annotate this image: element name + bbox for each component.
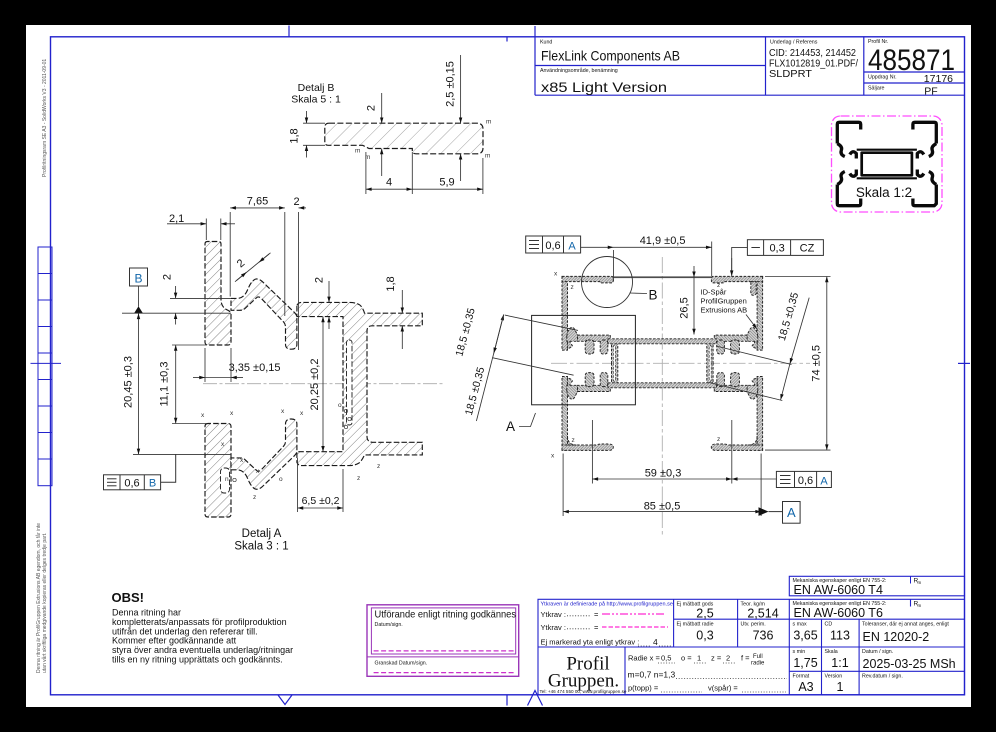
svg-text:Underlag / Referens: Underlag / Referens [770,40,818,46]
svg-text:85 ±0,5: 85 ±0,5 [644,501,681,513]
svg-text:A3: A3 [798,680,813,694]
box wall slit half [613,345,615,363]
svg-text:m: m [485,153,490,160]
svg-text:Ytkraven är definierade på htt: Ytkraven är definierade på http://www.pr… [541,601,673,608]
detail B circle [582,257,633,308]
svg-text:Version: Version [825,674,843,680]
box top wall [608,339,717,344]
svg-text:Utv. perim.: Utv. perim. [741,622,766,628]
svg-text:2,1: 2,1 [169,213,184,225]
thin top wall line (center span) [613,276,711,278]
flatness datum 0,6 A top [526,236,581,253]
svg-text:FlexLink Components AB: FlexLink Components AB [541,48,680,64]
guide finger 1 [585,340,594,354]
svg-text:2,5 ±0,15: 2,5 ±0,15 [445,61,457,107]
svg-text:o =: o = [681,654,692,663]
Main cross-section view [453,235,831,537]
finger plateau [578,335,611,341]
magenta dash-dot border [832,116,943,212]
svg-text:f =: f = [741,654,750,663]
svg-text:EN AW-6060 T4: EN AW-6060 T4 [794,583,883,597]
svg-text:v(spår) =: v(spår) = [708,684,738,693]
detail A rectangle [532,315,636,404]
svg-text:113: 113 [830,629,850,643]
detail B strip body (hatched) [325,123,483,154]
dim 1,8 arm [401,290,403,349]
Skala 1:2 preview box [832,116,943,212]
svg-text:Radie x =: Radie x = [628,654,661,663]
svg-text:p(topp) =: p(topp) = [628,684,659,693]
fold marks [278,26,970,706]
svg-text:m: m [918,580,922,585]
svg-text:1: 1 [697,654,701,663]
svg-text:A: A [568,241,576,253]
top-right corner arm with pad end [711,276,762,283]
svg-text:s min: s min [793,649,806,655]
svg-text:Skala: Skala [825,649,838,655]
upper-left wall bar [205,242,231,346]
svg-text:m: m [918,603,922,608]
svg-text:z: z [572,437,575,444]
svg-text:n: n [225,476,229,483]
material box EN AW-6060 T4 [789,576,964,597]
svg-text:1,8: 1,8 [289,128,301,143]
bottom foot right [711,444,762,450]
flatness datum box 0,6 B [104,454,176,489]
svg-text:B: B [149,478,156,490]
svg-text:2: 2 [162,274,174,280]
svg-text:4: 4 [653,637,658,647]
svg-text:1,75: 1,75 [793,656,817,670]
svg-text:m=0,7 n=1,3: m=0,7 n=1,3 [628,670,676,680]
right mid T-fingers [917,152,924,177]
datum A flag [759,507,769,516]
svg-text:ProfilGruppen: ProfilGruppen [701,297,747,306]
svg-text:0,3: 0,3 [696,629,713,643]
svg-text:2: 2 [726,654,730,663]
svg-text:z: z [717,436,720,443]
svg-text:A: A [506,419,515,434]
left wall jaw lower [837,172,845,185]
svg-text:Ytkrav :: Ytkrav : [541,623,566,632]
outer side wall (upper-left) [562,277,568,351]
svg-text:2: 2 [314,277,326,283]
dim 2 box wall [328,281,330,329]
lower-left wall bar [205,424,231,518]
svg-text:59 ±0,3: 59 ±0,3 [645,468,682,480]
profile silhouette icon [837,122,936,205]
box bottom wall [608,383,717,388]
svg-text:=: = [594,623,599,632]
svg-text:20,45 ±0,3: 20,45 ±0,3 [123,356,135,408]
svg-text:0,6: 0,6 [798,475,813,487]
svg-text:Utförande enligt ritning godkä: Utförande enligt ritning godkännes [375,609,517,621]
Detail A view [104,196,446,553]
box side wall upper half [612,340,618,363]
svg-text:m: m [365,154,370,161]
dim 41,9 [581,242,712,282]
top-left corner bracket [837,122,860,143]
lower band with valley and screw-boss tube [231,419,297,489]
upper band with crown and screw-boss tube [231,279,297,349]
jaw bump on wall [567,334,572,349]
bottom foot left corner fillet [568,436,577,445]
centerline detail A [203,383,445,385]
svg-text:4: 4 [386,177,392,189]
svg-text:74 ±0,5: 74 ±0,5 [811,345,823,382]
svg-text:Skala 3 : 1: Skala 3 : 1 [234,541,288,553]
white notch in lower bar [221,468,230,493]
svg-text:3,65: 3,65 [793,629,817,643]
svg-text:Profilritningsram SE A3 - Soli: Profilritningsram SE A3 - SolidWorks V3 … [42,59,48,177]
svg-text:Säljare: Säljare [868,86,885,92]
svg-text:Format: Format [793,674,810,680]
svg-text:Tel: +46 474 550 00, www.profi: Tel: +46 474 550 00, www.profilgruppen.s… [540,689,627,694]
svg-text:Full: Full [753,654,763,660]
dim 20,45 [122,313,231,454]
svg-text:EN AW-6060 T6: EN AW-6060 T6 [794,606,883,620]
central box [862,153,912,176]
dim 18,5 right [709,298,809,401]
central box walls with flange arms [297,302,422,465]
svg-text:m: m [486,119,491,126]
svg-text:A: A [787,505,796,520]
dim 74 [765,277,831,451]
svg-text:41,9 ±0,5: 41,9 ±0,5 [640,235,686,247]
flatness datum 0,6 A bottom [776,471,831,487]
left wall jaw upper [837,144,845,157]
dim 59 [592,420,731,484]
svg-text:A: A [820,475,828,487]
dims 4 and 5,9 bottom [366,152,483,194]
dim 6,5 [298,458,344,512]
svg-text:Ej markerad yta enligt ytkrav: Ej markerad yta enligt ytkrav : [541,638,640,647]
right info cells [793,649,956,694]
svg-text:Skala 5 : 1: Skala 5 : 1 [291,94,341,106]
title block [535,26,965,95]
bottom feet v-notches [591,449,593,451]
svg-text:z: z [357,475,360,482]
svg-text:2: 2 [294,196,300,208]
vertical centerline [661,257,663,537]
guide finger 2 [600,340,608,354]
radie cell [628,654,750,663]
svg-text:=: = [594,610,599,619]
svg-text:radie: radie [751,661,765,667]
bottom foot left [562,444,613,450]
dim 11,1 [172,345,207,424]
profile datum 0,3 CZ [747,240,823,256]
svg-text:EN 12020-2: EN 12020-2 [863,630,930,644]
logo cell [548,654,619,692]
svg-text:z: z [571,284,574,291]
crown bump [567,327,578,341]
svg-text:Granskad Datum/sign.: Granskad Datum/sign. [375,661,428,667]
right wall jaw lower [929,172,937,185]
Detail B view [289,55,492,194]
top-left corner arm with pad end [562,276,613,283]
svg-text:736: 736 [753,629,774,643]
svg-text:OBS!: OBS! [112,590,145,605]
svg-text:B: B [134,272,142,286]
svg-text:0,6: 0,6 [124,478,139,490]
svg-text:0,6: 0,6 [545,240,560,252]
svg-text:Uppdrag Nr.: Uppdrag Nr. [868,75,897,81]
central box outer top/bottom lines [857,149,917,151]
svg-text:2025-03-25 MSh: 2025-03-25 MSh [863,657,956,671]
svg-text:Ytkrav :: Ytkrav : [541,610,566,619]
svg-text:1:1: 1:1 [831,656,848,670]
dim 26,5 [693,266,695,277]
OBS note [112,590,294,665]
svg-text:7,65: 7,65 [247,196,268,208]
quarter template: wall, pad, mid complex [562,277,618,364]
svg-text:o: o [279,476,283,483]
svg-text:0,3: 0,3 [769,243,784,255]
svg-text:1,8: 1,8 [385,276,397,291]
svg-text:Extrusions AB: Extrusions AB [701,306,748,315]
svg-text:o: o [338,402,342,409]
svg-text:2,514: 2,514 [747,607,778,621]
svg-text:26,5: 26,5 [679,297,691,318]
left mid T-fingers [850,152,857,177]
bottom foot right corner fillet [748,436,757,445]
svg-text:5,9: 5,9 [439,177,454,189]
top-right corner bracket [913,122,936,143]
svg-text:0,5: 0,5 [661,654,671,663]
dim 1,8 left [303,111,325,158]
svg-text:Detalj B: Detalj B [298,82,335,94]
svg-text:1: 1 [837,680,844,694]
svg-text:z: z [253,494,256,501]
svg-text:PF: PF [924,86,937,98]
left margin ladder [31,247,62,486]
svg-text:Denna ritning är ProfilGruppen: Denna ritning är ProfilGruppen Extrusion… [35,523,42,673]
svg-text:CZ: CZ [800,243,815,255]
svg-text:z: z [717,282,720,289]
svg-text:z: z [377,463,380,470]
svg-text:s max: s max [793,622,807,628]
svg-text:Rev.datum / sign.: Rev.datum / sign. [862,674,903,680]
data cells row 1 [677,601,950,645]
dim 2 mid [381,93,383,176]
dim 85 [563,454,761,517]
svg-text:CD: CD [825,622,833,628]
bottom-right corner bracket [913,185,936,206]
datum B flag [130,268,148,286]
svg-text:z =: z = [711,654,722,663]
svg-text:Kund: Kund [540,40,552,46]
svg-text:B: B [649,288,658,303]
svg-text:m: m [355,148,360,155]
surface letters [201,402,380,501]
svg-text:17176: 17176 [924,73,953,85]
svg-text:SLDPRT: SLDPRT [769,68,813,80]
surface letters [551,271,720,460]
bottom data table [538,599,965,695]
approval box (magenta) [367,605,519,677]
svg-text:Datum/sign.: Datum/sign. [375,622,403,628]
svg-text:11,1 ±0,3: 11,1 ±0,3 [159,362,171,407]
m surface labels [355,119,491,162]
svg-text:utan vårt skriftliga medgivand: utan vårt skriftliga medgivande kopieras… [41,533,48,673]
top-right corner guide tab [751,282,756,296]
svg-text:Toleranser, där ej annat anges: Toleranser, där ej annat anges, enligt [862,622,949,628]
svg-text:Skala 1:2: Skala 1:2 [856,185,912,200]
right wall jaw upper [929,144,937,157]
svg-text:Datum / sign.: Datum / sign. [862,649,893,655]
dim 18,5 left pair [476,315,578,422]
horizontal centerline [551,362,810,364]
svg-text:Ej mätbatt radie: Ej mätbatt radie [677,622,714,628]
svg-text:ID-Spår: ID-Spår [701,288,727,297]
svg-text:6,5 ±0,2: 6,5 ±0,2 [302,495,340,507]
svg-text:3,35 ±0,15: 3,35 ±0,15 [229,362,281,374]
white slit in box right wall [347,340,353,425]
dim 20,25 [322,317,324,452]
svg-text:Användningsområde, benämning: Användningsområde, benämning [540,67,618,74]
dim 2 left [170,286,231,325]
svg-text:2: 2 [366,105,378,111]
svg-text:x85 Light Version: x85 Light Version [541,79,667,95]
svg-text:Detalj A: Detalj A [242,528,282,540]
svg-text:tills en ny ritning upprättats: tills en ny ritning upprättats och godkä… [112,655,283,665]
svg-text:20,25 ±0,2: 20,25 ±0,2 [309,359,321,411]
dim 2,5 +-0,15 right [460,55,462,181]
svg-text:2,5: 2,5 [696,607,713,621]
bottom-left corner bracket [837,185,860,206]
